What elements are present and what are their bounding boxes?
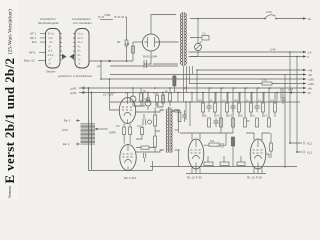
svg-text:+2B: +2B (288, 88, 293, 92)
resistor R8 (169, 93, 172, 101)
svg-text:Ns: Ns (308, 17, 312, 21)
tiny labels (111, 90, 169, 95)
external labels left of J1 (24, 32, 37, 63)
svg-text:KL1: KL1 (307, 151, 312, 155)
svg-text:N 1 a: N 1 a (48, 33, 54, 36)
pilot lamp La (195, 42, 203, 51)
output cathode rail (186, 173, 266, 175)
svg-text:1M: 1M (137, 125, 140, 128)
resistor Vr (132, 46, 135, 53)
bottom return loop (89, 161, 153, 171)
connector J1 body (46, 29, 61, 69)
svg-text:0,5 b: 0,5 b (62, 128, 69, 132)
wire R5 (133, 88, 141, 106)
mating arrows between J1 and J2 (62, 54, 67, 60)
tiny value labels scatter (116, 98, 275, 128)
Tr3 secondary winding (185, 14, 186, 65)
Tr3 primary winding (180, 14, 181, 65)
svg-text:500: 500 (210, 140, 215, 143)
svg-text:2,5: 2,5 (202, 33, 206, 36)
junction dots on buses (100, 51, 298, 93)
wires tubes to bottom bus (208, 102, 241, 167)
svg-text:+220: +220 (308, 82, 315, 86)
svg-text:1 L a: 1 L a (78, 33, 84, 36)
wire vertical x133 (132, 42, 134, 61)
junction node a (108, 60, 110, 62)
coupling resistor R3 (154, 115, 157, 126)
lead wires into J1 (38, 34, 46, 61)
svg-text:E verst 2b/1 und 2b/2: E verst 2b/1 und 2b/2 (2, 58, 17, 184)
anode wires V1/V2 to interstage (136, 93, 164, 153)
cap C5 (172, 109, 181, 113)
svg-text:2,5A: 2,5A (266, 10, 272, 14)
pot P1 (145, 100, 151, 106)
wire mains y21 (190, 18, 303, 20)
wire top of rectifier (151, 15, 176, 35)
cap C20 on bus (281, 88, 286, 104)
svg-text:KL2: KL2 (307, 142, 312, 146)
svg-text:2,4: 2,4 (308, 50, 312, 54)
pickup arrow into winding (98, 128, 109, 130)
vertical feedback wires (285, 52, 297, 168)
svg-text:NF E: NF E (29, 51, 36, 55)
connector J2 body (75, 29, 89, 69)
resistor R7 (162, 95, 165, 103)
svg-text:0,1: 0,1 (258, 100, 262, 103)
filament bus (110, 101, 300, 103)
svg-text:aP: aP (117, 40, 121, 44)
svg-text:t 2 b: t 2 b (48, 37, 53, 40)
caps row 1 (207, 102, 260, 112)
svg-text:NF b 314: NF b 314 (124, 176, 137, 180)
resistor R5 (140, 93, 143, 101)
cap C6 below R14 (144, 153, 146, 162)
svg-text:2,4V: 2,4V (270, 48, 276, 52)
svg-text:+Br: +Br (308, 86, 312, 90)
svg-text:±0: ±0 (308, 91, 312, 95)
wires between preamp tubes (124, 124, 130, 144)
bus ground (79, 92, 303, 94)
wire rectifier left (133, 41, 143, 43)
pentode V3 (188, 139, 204, 169)
svg-text:LpNF: LpNF (70, 91, 77, 95)
pot P3 mid (148, 120, 152, 124)
cathode resistor R12 (237, 162, 245, 166)
pentode V4 (250, 139, 266, 169)
svg-text:(a): (a) (97, 64, 100, 68)
cap C2 above V1 (147, 93, 149, 104)
resistor R9 mid (141, 128, 144, 135)
svg-text:gezeichnet f. d. Anschlußseite: gezeichnet f. d. Anschlußseite (58, 74, 92, 78)
output terminal KL1 (297, 151, 304, 154)
bus +48 (197, 69, 303, 71)
svg-text:Stecker: Stecker (46, 70, 56, 74)
filament comb wires (148, 93, 277, 103)
output terminal KL2 (290, 140, 304, 145)
wires R3 R4 (155, 107, 160, 152)
svg-text:RL 12 P 35: RL 12 P 35 (187, 176, 202, 180)
interstage transformer Tr2 core (168, 107, 170, 153)
bus +2.4V (189, 51, 304, 53)
connector J1 pin rows (48, 33, 55, 66)
svg-text:Erd: Erd (32, 40, 37, 44)
Tr2 secondary leads (160, 110, 180, 150)
wires row1 down (203, 112, 275, 117)
Tr1 winding stack (81, 123, 96, 125)
svg-text:(25-Watt-Verstärker): (25-Watt-Verstärker) (7, 9, 14, 54)
transformer tap drops (184, 66, 193, 102)
arrow into bus at 290 (289, 91, 293, 93)
svg-text:a48: a48 (125, 42, 130, 46)
bus main HT (79, 87, 303, 89)
switch S1 (265, 15, 276, 19)
resistor R14 right of V2 (141, 146, 149, 149)
wire lamp bottom (190, 51, 198, 57)
svg-text:0,1: 0,1 (222, 100, 226, 103)
net label NSZ with dashes (98, 13, 128, 61)
svg-text:w 6 a: w 6 a (48, 54, 54, 57)
svg-text:(NFE): (NFE) (109, 131, 116, 135)
svg-text:3 L c: 3 L c (78, 41, 84, 44)
V4 pin drops (254, 168, 262, 174)
svg-text:0,1: 0,1 (144, 98, 148, 101)
wire node a down (100, 61, 102, 79)
input transformer Tr1 core (89, 88, 92, 170)
svg-text:+48: +48 (308, 68, 313, 72)
J1 right edge pin ticks (60, 34, 62, 60)
Tr2 secondary (171, 109, 172, 152)
svg-text:zum Verstärker: zum Verstärker (73, 21, 92, 25)
svg-text:170: 170 (262, 78, 267, 82)
wire vertical x110 (110, 79, 120, 110)
terminal arrow Netz (303, 17, 307, 19)
label above connector J2 (72, 17, 92, 25)
wire pot (132, 88, 134, 106)
bus -2.4V (189, 56, 304, 58)
svg-text:LpNF: LpNF (70, 86, 77, 90)
svg-text:Ein 1: Ein 1 (64, 119, 71, 123)
resistor bank row 1 (202, 103, 277, 112)
transformer bottom tie (110, 65, 178, 67)
grid resistor R1 (123, 127, 126, 135)
svg-text:1M: 1M (116, 125, 119, 128)
svg-text:RGN 1064: RGN 1064 (143, 55, 158, 59)
pot P2 (130, 96, 136, 102)
svg-text:LV 7/12: LV 7/12 (103, 93, 113, 97)
svg-text:Batt.+12: Batt.+12 (24, 59, 35, 63)
vertical drops from buses (197, 70, 281, 118)
second resistor row (208, 118, 271, 127)
svg-text:RL 12 P 35: RL 12 P 35 (247, 176, 262, 180)
screen feed box (231, 137, 234, 146)
tube top wires (180, 133, 270, 140)
rectifier tube V5 (143, 34, 179, 51)
grid stopper R13 (209, 143, 219, 146)
bus +280 (101, 78, 303, 80)
svg-text:-48: -48 (308, 73, 312, 77)
svg-text:das Bediengerät: das Bediengerät (38, 21, 59, 25)
wire rectifier bottom (144, 51, 151, 68)
cathode resistor R10 (204, 162, 213, 166)
bottom bus of output stage (150, 166, 297, 168)
svg-text:+280: +280 (308, 77, 315, 81)
svg-text:0,5: 0,5 (125, 92, 129, 95)
bus 170 with resistor R20 (189, 83, 303, 85)
cathode resistor R11 (220, 162, 229, 166)
junction at output (296, 151, 298, 153)
J2 left edge pin ticks (73, 34, 75, 60)
fuse Si (202, 36, 209, 41)
svg-text:Siemens: Siemens (8, 185, 12, 198)
wire R14 (136, 147, 155, 149)
input terminal labels (62, 119, 71, 147)
connector J2 pin rows (78, 33, 84, 66)
wire mid column (136, 125, 142, 139)
input lead marks (76, 119, 80, 146)
svg-text:0,5: 0,5 (216, 115, 220, 118)
wires right of V4 (266, 133, 271, 158)
svg-text:2 L b: 2 L b (78, 37, 84, 40)
feed components row left-mid (111, 66, 193, 107)
V3 pin drops (192, 168, 200, 174)
NF input terminal 1 (83, 87, 85, 89)
coupling resistor R4 (154, 136, 157, 147)
svg-text:0,5: 0,5 (264, 115, 268, 118)
cap C12 (219, 143, 226, 148)
svg-text:NSZ: NSZ (105, 13, 111, 17)
NF input terminal 2 (83, 92, 85, 94)
drops below filament bus (186, 102, 221, 133)
wires mid (204, 133, 226, 145)
screen resistor right of Tr2 (178, 113, 181, 122)
bus -48 (110, 74, 303, 76)
svg-text:m 5: m 5 (48, 50, 53, 53)
resistor R6 (156, 95, 159, 103)
wire R6 R7 (157, 93, 163, 108)
Tr2 secondary drops (178, 110, 180, 167)
choke Dr1 (173, 76, 176, 86)
wire R8 (169, 88, 171, 106)
grid resistor R2 (129, 127, 132, 135)
caps second row (214, 118, 250, 127)
wire lamp top (190, 19, 198, 44)
Tr2 primary (166, 109, 167, 152)
triode V2 (120, 145, 136, 171)
svg-text:Ein 2: Ein 2 (63, 142, 70, 146)
resistor right of V4 (270, 143, 273, 151)
power transformer Tr3 core (183, 12, 185, 66)
cap C3 mid column (143, 114, 145, 125)
cap right of Tr2 (182, 110, 186, 122)
wire choke (173, 75, 175, 93)
label above connector J1 (38, 17, 59, 25)
wire block2 to node a (89, 60, 133, 62)
dropper resistor on NSZ line (126, 17, 128, 61)
triode V1 (119, 93, 135, 124)
